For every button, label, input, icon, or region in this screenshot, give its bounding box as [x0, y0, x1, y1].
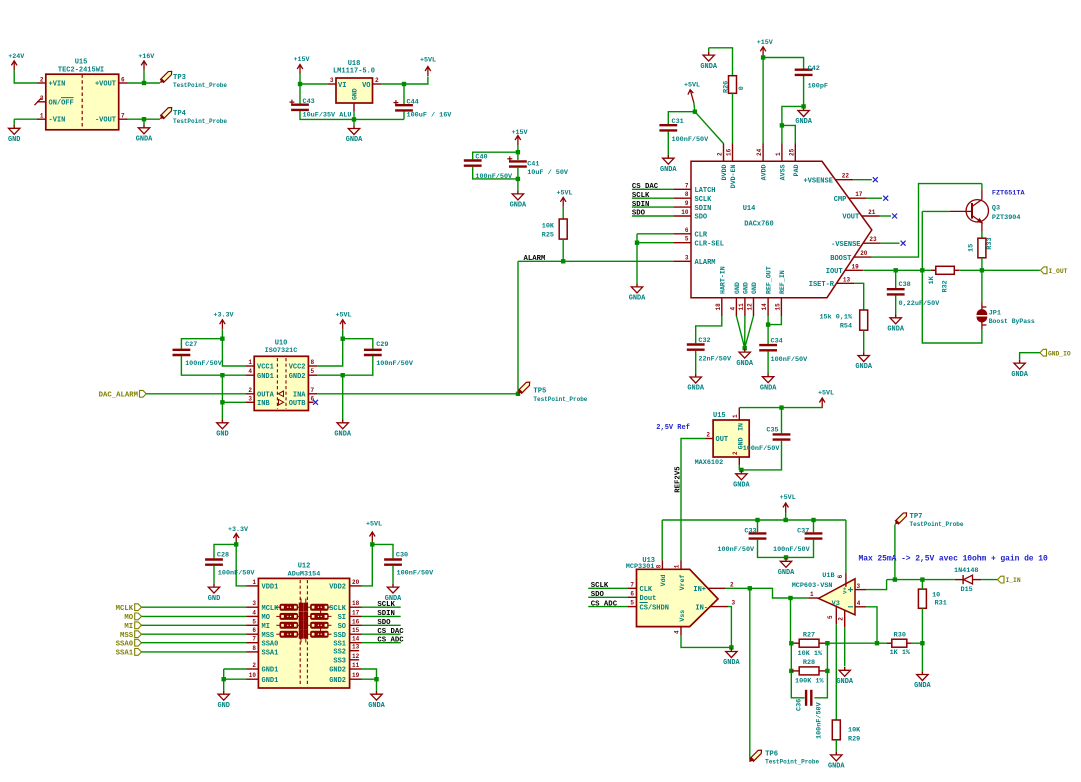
svg-text:MAX6102: MAX6102 — [695, 459, 724, 467]
wire C29 bottom to GND2 — [317, 356, 373, 375]
wire to GNDA R30 — [921, 643, 923, 671]
wire stub arrow — [821, 407, 823, 409]
svg-text:4: 4 — [729, 307, 736, 311]
svg-text:MCLK: MCLK — [116, 605, 134, 613]
svg-text:15: 15 — [968, 244, 976, 252]
wire +15V down — [517, 145, 519, 160]
svg-text:22: 22 — [842, 173, 850, 180]
junction caps gnd — [784, 555, 788, 559]
svg-text:GND: GND — [217, 702, 229, 710]
wire SDO adc — [588, 596, 627, 598]
svg-text:IOUT: IOUT — [826, 268, 843, 276]
svg-text:C44: C44 — [407, 99, 419, 107]
svg-text:2: 2 — [248, 387, 252, 394]
ground GNDA under U10 — [337, 420, 348, 429]
svg-text:CLR-SEL: CLR-SEL — [695, 240, 724, 248]
wire GND pin11 — [744, 316, 746, 348]
svg-text:-VIN: -VIN — [49, 117, 66, 125]
svg-text:C41: C41 — [527, 161, 539, 169]
pin 2 GND1 stub — [247, 668, 259, 670]
wire to C38 — [895, 270, 897, 288]
wire to C29 top — [343, 339, 373, 349]
resistor R32 1K — [936, 266, 955, 274]
pin 9 SDIN stub — [673, 206, 691, 208]
junction R31 top — [920, 577, 924, 581]
svg-text:15: 15 — [774, 303, 781, 311]
svg-text:1K 1%: 1K 1% — [890, 649, 911, 657]
svg-text:HART-IN: HART-IN — [719, 266, 726, 294]
junction C42 gnd — [801, 104, 805, 108]
svg-text:TestPoint_Probe: TestPoint_Probe — [173, 118, 227, 125]
svg-text:+5VL: +5VL — [684, 81, 700, 89]
junction +5VL rail arrow — [784, 518, 788, 522]
wire +16V arrow — [143, 70, 145, 83]
pin 5 CLR-SEL stub — [673, 242, 691, 244]
op-amp plus — [848, 587, 853, 592]
svg-text:C31: C31 — [672, 118, 684, 126]
resistor R30 1K 1% — [892, 639, 907, 647]
svg-text:15: 15 — [352, 627, 360, 634]
svg-text:GND: GND — [751, 282, 758, 294]
svg-text:100nF/50V: 100nF/50V — [185, 360, 223, 368]
testpoint TP7 probe — [893, 511, 908, 526]
capacitor C32 22nF/50V — [687, 345, 705, 350]
svg-text:R33: R33 — [986, 237, 994, 249]
svg-text:1K: 1K — [928, 275, 936, 284]
svg-text:25: 25 — [788, 148, 795, 156]
svg-text:19: 19 — [352, 672, 360, 679]
capacitor C35 100nF/50V — [773, 434, 791, 439]
svg-text:ON/OFF: ON/OFF — [49, 99, 74, 107]
junction IOUT R33 JP1 — [980, 268, 984, 272]
ground GND under U10 — [217, 420, 228, 429]
svg-text:GNDA: GNDA — [736, 360, 753, 368]
wire rail to Vdd — [661, 520, 663, 561]
pin 14 SS1 stub — [350, 642, 362, 644]
svg-text:SSA1: SSA1 — [116, 650, 134, 658]
divider dashed U15 — [81, 74, 83, 130]
svg-text:7: 7 — [121, 113, 125, 120]
wire R31 top — [921, 580, 923, 590]
svg-text:SS3: SS3 — [333, 658, 346, 666]
stubs R30 — [887, 642, 892, 644]
svg-text:GNDA: GNDA — [1011, 371, 1028, 379]
svg-text:+VIN: +VIN — [49, 81, 66, 89]
ground GND under U12 — [218, 691, 229, 700]
wire REF_OUT — [767, 316, 769, 325]
resistor R27 10K 1% — [799, 639, 819, 647]
svg-text:16: 16 — [352, 618, 360, 625]
wire MI — [142, 624, 247, 626]
ground GNDA under C31 — [663, 155, 674, 164]
pin 3 stub — [855, 589, 866, 591]
svg-text:2: 2 — [252, 662, 256, 669]
hierarchical label MSS — [135, 631, 142, 638]
pin 4 stub — [855, 606, 866, 608]
pin 22 +VSENSE stub — [835, 179, 853, 181]
wire +5VL slant — [694, 103, 695, 112]
pin 5 stub — [835, 606, 837, 625]
svg-text:R28: R28 — [803, 659, 815, 667]
no-connect CMP — [883, 196, 888, 201]
wire +15V to AVDD — [762, 56, 764, 143]
wire down to C43 — [299, 84, 301, 104]
svg-text:23: 23 — [869, 236, 877, 243]
svg-text:12: 12 — [747, 303, 754, 311]
svg-text:1N4148: 1N4148 — [954, 567, 978, 575]
svg-text:R32: R32 — [942, 280, 950, 292]
svg-text:SSA0: SSA0 — [116, 640, 134, 648]
wire REF2V5 — [681, 439, 706, 561]
svg-text:CS_ADC: CS_ADC — [377, 636, 404, 644]
junction ALARM R25 — [561, 259, 565, 263]
ground GNDA under R29 — [831, 752, 842, 761]
svg-text:GNDA: GNDA — [629, 295, 646, 303]
svg-text:11: 11 — [738, 303, 745, 311]
svg-text:REF2V5: REF2V5 — [675, 466, 683, 492]
svg-text:VDD1: VDD1 — [262, 584, 279, 592]
wire GND to -VIN — [14, 118, 37, 120]
junction GND2 — [374, 677, 378, 681]
wire +5VL to R25 — [562, 207, 564, 219]
wire to C31 — [668, 112, 695, 124]
junction +15V C43 — [298, 82, 302, 86]
wire IOUT left — [863, 269, 931, 271]
svg-text:TestPoint_Probe: TestPoint_Probe — [173, 82, 227, 89]
svg-text:-VSENSE: -VSENSE — [831, 241, 860, 249]
resistor R33 15 — [978, 238, 986, 258]
pin 3 ON/OFF stub — [37, 101, 46, 103]
svg-text:17: 17 — [352, 609, 360, 616]
svg-text:10: 10 — [249, 672, 257, 679]
svg-text:U1B: U1B — [822, 572, 834, 580]
svg-text:CLR: CLR — [695, 232, 708, 240]
wire C30 bottom — [392, 566, 394, 584]
wire C38 bottom — [895, 296, 897, 315]
svg-text:OUT: OUT — [716, 436, 729, 444]
junction IOUT base — [920, 268, 924, 272]
pin 3 ALARM stub — [673, 260, 691, 262]
svg-text:DVDD: DVDD — [721, 164, 728, 180]
wire C44 bottom — [403, 111, 405, 119]
wire to C28 — [214, 544, 236, 558]
overline OFF — [61, 97, 74, 99]
svg-text:100uF / 16V: 100uF / 16V — [407, 112, 453, 120]
wire GNDA vertical U10 — [342, 375, 344, 419]
svg-text:3: 3 — [732, 600, 736, 607]
svg-text:4: 4 — [857, 600, 861, 607]
wire SDO U12 — [362, 624, 401, 626]
ground GNDA C33 C37 — [780, 558, 791, 567]
svg-text:+5VL: +5VL — [780, 494, 796, 502]
wire +5VL to VCC2 — [317, 329, 342, 366]
junction TP6 line — [748, 586, 752, 590]
junction TP5 — [516, 392, 520, 396]
svg-text:12: 12 — [352, 653, 360, 660]
IC body U10 ISO7321C — [254, 356, 308, 410]
wire DAC_ALARM to OUTA — [146, 393, 245, 395]
power +15V left — [297, 65, 303, 75]
pin 18 HART-IN stub — [721, 298, 723, 316]
junction C33 rail — [755, 518, 759, 522]
pin 2 OUTA stub — [245, 393, 254, 395]
wire SSA1 — [142, 651, 247, 653]
pin 18 SCLK stub — [350, 606, 362, 608]
power +5VL U18 — [425, 67, 431, 77]
svg-text:+3.3V: +3.3V — [213, 312, 233, 320]
svg-text:6: 6 — [121, 76, 125, 83]
svg-text:13: 13 — [843, 276, 851, 283]
wire INB — [222, 401, 245, 403]
svg-text:GND_IO: GND_IO — [1048, 350, 1071, 357]
wire VO to +5VL — [381, 77, 428, 85]
svg-text:SI: SI — [338, 614, 346, 622]
svg-text:3: 3 — [248, 395, 252, 402]
svg-text:MCLK: MCLK — [262, 605, 280, 613]
svg-text:9: 9 — [685, 200, 689, 207]
svg-text:MCP3301: MCP3301 — [626, 563, 655, 571]
svg-text:JP1: JP1 — [989, 310, 1001, 318]
capacitor C44 100uF/16V — [393, 100, 413, 110]
svg-text:5: 5 — [252, 618, 256, 625]
pin 4 MO stub — [247, 615, 259, 617]
testpoint TP3 probe — [158, 69, 173, 84]
pin 10 SDO stub — [673, 215, 691, 217]
pin 5 MI stub — [247, 624, 259, 626]
resistor R29 10K — [832, 720, 840, 740]
pin GND stub U15 — [738, 457, 740, 465]
wire Q3 emitter to R33 — [981, 231, 983, 238]
stubs R27 — [791, 642, 799, 644]
svg-text:SSD: SSD — [333, 632, 346, 640]
wire C42 bottom to AVSS — [782, 76, 804, 144]
pin 8 SSA1 stub — [247, 651, 259, 653]
svg-text:17: 17 — [855, 191, 863, 198]
wire pin4 feedback — [866, 607, 877, 643]
svg-text:100K 1%: 100K 1% — [795, 678, 824, 686]
svg-text:TP3: TP3 — [173, 74, 186, 82]
junction +5VL C29 — [341, 337, 345, 341]
svg-text:2,5V Ref: 2,5V Ref — [656, 424, 690, 432]
ground GNDA GND_IO — [1014, 360, 1025, 369]
pin 24 AVDD stub — [762, 144, 764, 162]
svg-text:SDO: SDO — [377, 619, 391, 627]
wire +3.3V to VCC1 — [222, 329, 245, 366]
pin 2 IN+ stub — [708, 587, 726, 589]
svg-text:1: 1 — [732, 414, 739, 418]
svg-text:TestPoint_Probe: TestPoint_Probe — [765, 759, 819, 766]
ground GNDA DAC GND — [739, 349, 750, 358]
svg-text:100nF/50V: 100nF/50V — [397, 569, 435, 577]
power +3.3V U10 — [220, 320, 226, 330]
wire to C42 — [763, 58, 804, 69]
svg-text:2: 2 — [706, 432, 710, 439]
junction GND U18 — [352, 117, 356, 121]
op-amp minus — [848, 606, 853, 608]
ground GND left — [9, 125, 20, 134]
svg-text:PAD: PAD — [793, 164, 800, 176]
wire +3.3V to VDD1 — [236, 543, 246, 586]
ground GNDA R26 — [703, 52, 714, 61]
svg-text:7: 7 — [630, 581, 634, 588]
svg-text:INA: INA — [293, 392, 306, 400]
pin 4 Vss stub — [680, 627, 682, 636]
wire Q3 base — [922, 210, 950, 212]
svg-text:7: 7 — [685, 182, 689, 189]
svg-text:15k 0,1%: 15k 0,1% — [819, 314, 853, 322]
svg-text:U14: U14 — [743, 205, 756, 213]
wire IN+ to op-amp out — [726, 588, 808, 598]
wire +24V to +VIN — [14, 70, 37, 83]
svg-text:21: 21 — [868, 209, 876, 216]
isolator channel — [276, 621, 331, 629]
wire R30 right — [912, 642, 923, 644]
pin 12 SS3 stub — [350, 659, 360, 661]
wire SDO DAC — [632, 215, 673, 217]
wire C34 bottom — [767, 351, 769, 373]
svg-text:OUTA: OUTA — [257, 392, 275, 400]
svg-text:+15V: +15V — [511, 129, 527, 137]
svg-text:R25: R25 — [542, 231, 554, 239]
junction op-amp out — [788, 596, 792, 600]
svg-text:+3.3V: +3.3V — [228, 526, 248, 534]
pin IN stub U15 — [738, 408, 740, 420]
svg-text:100nF/50V: 100nF/50V — [773, 546, 811, 554]
pin 19 GND2 stub — [350, 678, 362, 680]
svg-text:CS_DAC: CS_DAC — [377, 628, 404, 636]
wire feedback to R30 — [877, 642, 892, 644]
svg-text:SCLK: SCLK — [377, 601, 395, 609]
svg-text:U12: U12 — [298, 563, 311, 571]
pin 14 REF_OUT stub — [767, 298, 769, 316]
svg-text:I_IN: I_IN — [1006, 577, 1021, 584]
svg-text:10: 10 — [681, 209, 689, 216]
svg-text:C35: C35 — [766, 427, 778, 435]
svg-text:GNDA: GNDA — [855, 363, 872, 371]
svg-text:+VOUT: +VOUT — [95, 81, 116, 89]
svg-text:LM1117-5.0: LM1117-5.0 — [333, 68, 375, 76]
svg-text:VCC1: VCC1 — [257, 364, 274, 372]
svg-text:TestPoint_Probe: TestPoint_Probe — [910, 521, 964, 528]
wire +VOUT — [128, 82, 161, 84]
pin 3 MCLK stub — [247, 606, 259, 608]
svg-text:IN-: IN- — [695, 604, 708, 612]
svg-text:7: 7 — [311, 387, 315, 394]
pin 1 AVSS stub — [781, 144, 783, 162]
pin 1 VDD1 stub — [247, 585, 259, 587]
svg-text:24: 24 — [756, 148, 763, 156]
wire GND2 pin19 — [362, 678, 377, 680]
svg-text:INB: INB — [257, 400, 270, 408]
wire R31 bottom — [921, 608, 923, 643]
wire +5VL rail — [662, 519, 846, 521]
svg-text:+VSENSE: +VSENSE — [803, 177, 832, 185]
svg-text:C36: C36 — [796, 699, 804, 711]
pin 15 SSD stub — [350, 633, 362, 635]
svg-text:+15V: +15V — [293, 56, 309, 64]
svg-text:GNDA: GNDA — [334, 431, 351, 439]
svg-text:C38: C38 — [899, 281, 911, 289]
wire TP7 down — [894, 525, 896, 580]
svg-text:SS2: SS2 — [333, 648, 346, 656]
hierarchical label MI — [135, 622, 142, 629]
svg-text:+16V: +16V — [138, 53, 154, 61]
svg-text:3: 3 — [252, 600, 256, 607]
junction +15V C42 — [761, 55, 765, 59]
hierarchical label SSA0 — [135, 639, 142, 646]
wire C40 bottom — [473, 167, 518, 179]
svg-text:GNDA: GNDA — [760, 384, 777, 392]
wire ISET-R to R54 — [854, 283, 863, 310]
power +15V DAC — [760, 47, 766, 57]
svg-text:100nF/50V: 100nF/50V — [771, 356, 809, 364]
svg-text:100nF/50V: 100nF/50V — [218, 569, 256, 577]
wire CLR — [637, 233, 673, 235]
svg-text:3: 3 — [685, 254, 689, 261]
wire GND_IO — [1020, 353, 1040, 360]
divider dashed U10 a — [276, 358, 278, 409]
wire +15V to VI — [300, 74, 327, 84]
svg-text:GND2: GND2 — [329, 677, 346, 685]
wire -VSENSE nc — [881, 242, 900, 244]
svg-text:ISO7321C: ISO7321C — [265, 347, 298, 355]
wire C28 bottom — [213, 566, 215, 584]
svg-text:10uF/35V ALU: 10uF/35V ALU — [303, 111, 352, 119]
pin 4 GND stub — [735, 298, 737, 316]
svg-text:GNDA: GNDA — [723, 659, 740, 667]
divider dashed U12 b — [306, 580, 308, 687]
capacitor C27 100nF/50V — [173, 350, 191, 355]
ground GNDA under TEC2 — [138, 125, 149, 134]
svg-text:VO: VO — [362, 82, 370, 90]
wire GND stub — [13, 119, 15, 125]
svg-text:VI: VI — [338, 82, 346, 90]
ground GNDA under C30 — [387, 584, 398, 593]
wire rail to C37 — [813, 520, 815, 532]
svg-text:22nF/50V: 22nF/50V — [698, 355, 732, 363]
wire SDIN U12 — [362, 615, 401, 617]
ground GNDA under R54 — [858, 352, 869, 361]
svg-text:U15: U15 — [713, 412, 726, 420]
svg-text:R30: R30 — [894, 632, 906, 640]
wire IN- down — [728, 607, 731, 648]
svg-text:SS1: SS1 — [333, 640, 346, 648]
junction C37 rail — [811, 518, 815, 522]
wire to C35 — [781, 408, 783, 434]
svg-text:SDIN: SDIN — [695, 205, 712, 213]
svg-text:TestPoint_Probe: TestPoint_Probe — [533, 396, 587, 403]
power +24V — [11, 61, 17, 71]
junction feedback — [875, 641, 879, 645]
pin 8 Vdd stub — [661, 561, 663, 570]
svg-text:5: 5 — [827, 615, 834, 619]
pin 2 DVDD stub — [723, 144, 725, 162]
junction GNDA node TEC2 — [142, 117, 146, 121]
svg-text:100pF: 100pF — [808, 83, 828, 91]
svg-text:MO: MO — [124, 614, 133, 622]
junction +3.3V C27 — [220, 337, 224, 341]
junction GND1 — [222, 677, 226, 681]
svg-text:MI: MI — [262, 623, 270, 631]
capacitor C30 100nF/50V — [384, 560, 402, 565]
capacitor C29 100nF/50V — [364, 350, 382, 355]
power +5VL rail — [783, 503, 789, 513]
wire down to C44 — [403, 84, 405, 104]
svg-text:IN+: IN+ — [693, 586, 706, 594]
wire R27 to R28 left — [790, 643, 792, 671]
pin 23 -VSENSE stub — [863, 242, 881, 244]
pin 16 DVD-EN stub — [732, 144, 734, 162]
